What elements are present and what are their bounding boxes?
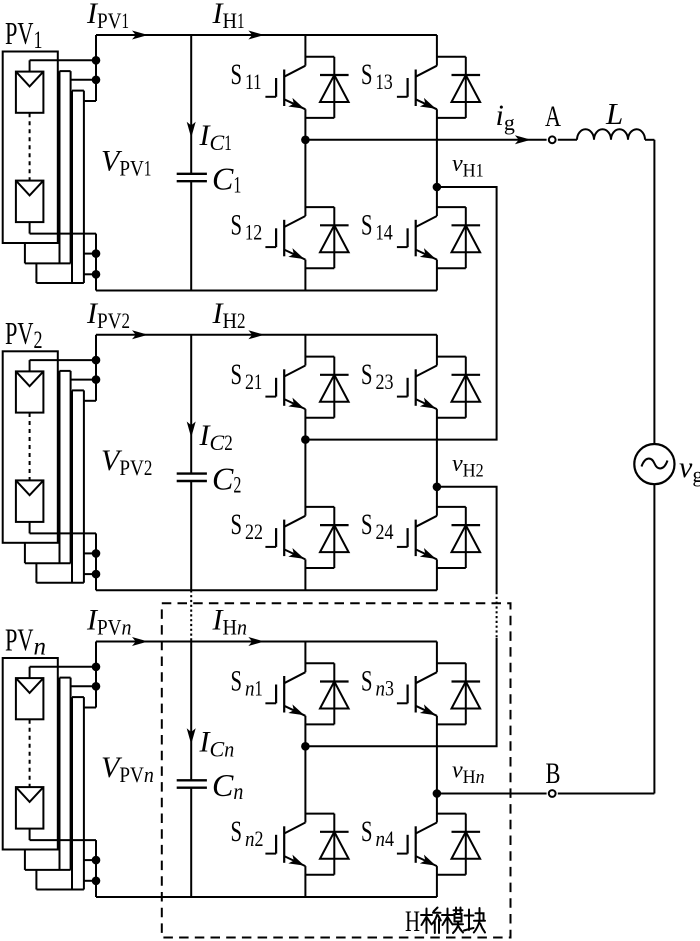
wire string3 left side bbox=[71, 697, 73, 889]
wire right leg mid segment module n bbox=[436, 716, 438, 823]
arrow I_PVn bbox=[132, 637, 148, 646]
diode D13 top branch wire bbox=[437, 56, 466, 58]
diode D23 top branch wire bbox=[437, 356, 466, 358]
wire string3 right side bbox=[83, 91, 85, 283]
wire top rail module 2 bbox=[96, 334, 437, 336]
diode D14 triangle bbox=[452, 225, 481, 252]
wire staircase step2 vertical bbox=[35, 870, 37, 890]
diode D24 cathode bar bbox=[452, 524, 481, 526]
diode D12 triangle bbox=[320, 225, 349, 252]
transistor S13 gate lead bbox=[397, 96, 408, 98]
PV array PV2 outer panel box bbox=[3, 351, 58, 543]
transistor Sn4 collector stroke bbox=[416, 823, 437, 834]
PV cell bottom chevron bbox=[16, 480, 44, 495]
diode D11 triangle bbox=[320, 75, 349, 102]
wire v_H2 down bbox=[437, 487, 497, 592]
diode D22 triangle bbox=[320, 525, 349, 552]
diode D14 vertical wire bbox=[465, 207, 467, 268]
diode Dn4 vertical wire bbox=[465, 814, 467, 875]
arrow I_PV2 bbox=[132, 330, 148, 339]
wire string2 left side bbox=[59, 371, 61, 563]
diode Dn2 top branch wire bbox=[305, 813, 334, 815]
arrow i_g bbox=[515, 135, 531, 144]
transistor Sn2 emitter arrow bbox=[288, 855, 304, 866]
wire capacitor Cn top lead bbox=[190, 642, 192, 781]
svg-text:L: L bbox=[605, 96, 623, 131]
wire staircase step1 horizontal bbox=[25, 262, 71, 264]
wire capacitor C1 top lead bbox=[190, 35, 192, 174]
diode D12 top branch wire bbox=[305, 206, 334, 208]
wire right leg mid segment module 1 bbox=[436, 109, 438, 216]
wire capacitor C1 bottom lead bbox=[190, 181, 192, 290]
wire PV minus lead to bus bbox=[30, 233, 96, 235]
transistor Sn3 emitter stroke bbox=[416, 706, 437, 716]
transistor S14 collector stroke bbox=[416, 216, 437, 227]
transistor Sn1 gate bar bbox=[275, 685, 277, 704]
transistor S24 gate lead bbox=[397, 546, 408, 548]
PV cell top chevron bbox=[16, 678, 44, 693]
terminal B bbox=[549, 790, 556, 797]
wire left leg emitter segment module n bbox=[304, 866, 306, 897]
wire staircase step1 vertical bbox=[24, 243, 26, 263]
diode D13 bottom branch wire bbox=[437, 117, 466, 119]
transistor S24 emitter stroke bbox=[416, 549, 437, 559]
diode Dn2 triangle bbox=[320, 832, 349, 859]
transistor S14 body bar bbox=[415, 220, 417, 256]
transistor Sn2 gate lead bbox=[265, 853, 276, 855]
wire staircase step1 horizontal bbox=[25, 869, 71, 871]
diode Dn4 top branch wire bbox=[437, 813, 466, 815]
diode Dn3 triangle bbox=[452, 682, 481, 709]
diode Dn1 bottom branch wire bbox=[305, 723, 334, 725]
transistor Sn4 emitter stroke bbox=[416, 856, 437, 866]
PV cell top rectangle bbox=[16, 72, 44, 113]
diode D24 vertical wire bbox=[465, 507, 467, 568]
diode D12 cathode bar bbox=[320, 224, 349, 226]
wire node A to inductor bbox=[558, 139, 577, 141]
wire string2 right side bbox=[70, 678, 72, 870]
transistor Sn1 body bar bbox=[283, 676, 285, 713]
PV cell bottom rectangle bbox=[16, 480, 44, 522]
wire left leg collector segment module n bbox=[304, 642, 306, 673]
transistor Sn3 gate lead bbox=[397, 702, 408, 704]
diode Dn3 top branch wire bbox=[437, 662, 466, 664]
diode D13 cathode bar bbox=[452, 74, 481, 76]
diode D11 vertical wire bbox=[333, 57, 335, 118]
wire right leg emitter segment module 1 bbox=[436, 260, 438, 291]
wire dc bus upper segment bbox=[95, 35, 97, 101]
wire staircase step1 horizontal bbox=[25, 562, 71, 564]
PV cell top rectangle bbox=[16, 371, 44, 412]
transistor Sn3 emitter arrow bbox=[420, 704, 436, 715]
wire staircase step2 vertical bbox=[35, 563, 37, 583]
wire cell string bottom riser bbox=[29, 829, 31, 841]
transistor S13 gate bar bbox=[407, 78, 409, 97]
diode Dn3 cathode bar bbox=[452, 680, 481, 682]
wire string2 right side bbox=[70, 371, 72, 563]
wire string2 top link bbox=[60, 370, 71, 372]
wire i_g output to node A bbox=[305, 139, 546, 141]
diode D22 bottom branch wire bbox=[305, 567, 334, 569]
capacitor Cn plates bbox=[177, 780, 207, 787]
wire PV plus lead to bus bbox=[30, 59, 96, 61]
wire left leg mid segment module 1 bbox=[304, 109, 306, 216]
PV cell bottom chevron bbox=[16, 181, 44, 196]
transistor S23 gate lead bbox=[397, 396, 408, 398]
wire dotted continuation v_H column bbox=[496, 592, 498, 638]
transistor S24 gate bar bbox=[407, 528, 409, 547]
wire right leg collector segment module n bbox=[436, 642, 438, 673]
wire dashed cell string link bbox=[29, 413, 31, 480]
wire stub to bottom bus dot 2 bbox=[84, 273, 96, 275]
junction bus top dot 1 bbox=[92, 56, 101, 65]
diode D11 top branch wire bbox=[305, 56, 334, 58]
transistor Sn3 gate bar bbox=[407, 685, 409, 704]
wire bus elbow to string3 bbox=[84, 400, 96, 402]
transistor S14 emitter arrow bbox=[420, 248, 436, 259]
capacitor C2 plates bbox=[177, 474, 207, 481]
junction bus top dot 2 bbox=[92, 375, 101, 384]
transistor S13 body bar bbox=[415, 70, 417, 107]
diode D21 triangle bbox=[320, 375, 349, 402]
diode D11 bottom branch wire bbox=[305, 117, 334, 119]
transistor S13 emitter stroke bbox=[416, 99, 437, 109]
wire bus elbow to string3 bbox=[84, 100, 96, 102]
wire dc bus lower segment bbox=[95, 840, 97, 897]
wire dc bus lower segment bbox=[95, 234, 97, 291]
junction bus bottom dot 1 bbox=[92, 249, 101, 258]
wire bottom rail module 2 bbox=[96, 589, 437, 591]
wire left leg emitter segment module 1 bbox=[304, 260, 306, 291]
wire string2 to bus dot bbox=[71, 685, 96, 687]
wire top rail module 1 bbox=[96, 34, 437, 36]
junction bus bottom dot 1 bbox=[92, 856, 101, 865]
transistor Sn2 gate bar bbox=[275, 835, 277, 854]
transistor Sn2 body bar bbox=[283, 826, 285, 863]
wire string2 top link bbox=[60, 70, 71, 72]
wire staircase step2 vertical bbox=[35, 263, 37, 283]
transistor S21 collector stroke bbox=[284, 366, 305, 377]
wire PV minus lead to bus bbox=[30, 532, 96, 534]
transistor S22 emitter stroke bbox=[284, 549, 305, 559]
PV array PVn outer panel box bbox=[3, 658, 58, 850]
junction bus bottom dot 1 bbox=[92, 549, 101, 558]
arrow I_H1 bbox=[248, 31, 264, 40]
junction bus bottom dot 2 bbox=[92, 570, 101, 579]
wire right leg mid segment module 2 bbox=[436, 409, 438, 516]
wire PV plus lead to bus bbox=[30, 666, 96, 668]
transistor S21 emitter arrow bbox=[288, 398, 304, 409]
diode Dn2 cathode bar bbox=[320, 831, 349, 833]
diode D12 vertical wire bbox=[333, 207, 335, 268]
wire bus elbow to string3 bbox=[84, 707, 96, 709]
wire PV minus lead to bus bbox=[30, 839, 96, 841]
diode Dn3 bottom branch wire bbox=[437, 723, 466, 725]
transistor S22 collector stroke bbox=[284, 516, 305, 527]
transistor S12 emitter stroke bbox=[284, 250, 305, 260]
transistor S12 collector stroke bbox=[284, 216, 305, 227]
wire capacitor C2 bottom lead bbox=[190, 481, 192, 590]
transistor Sn4 emitter arrow bbox=[420, 855, 436, 866]
transistor S23 gate bar bbox=[407, 378, 409, 397]
transistor S12 gate lead bbox=[265, 246, 276, 248]
wire cell string bottom riser bbox=[29, 222, 31, 234]
arrow I_C1 bbox=[187, 122, 196, 138]
arrow I_Cn bbox=[187, 728, 196, 744]
transistor S22 emitter arrow bbox=[288, 548, 304, 559]
wire to module n midpoint bbox=[305, 638, 496, 746]
wire left leg mid segment module 2 bbox=[304, 409, 306, 516]
wire staircase step2 horizontal bbox=[36, 582, 84, 584]
diode D24 triangle bbox=[452, 525, 481, 552]
diode Dn4 triangle bbox=[452, 832, 481, 859]
diode D24 top branch wire bbox=[437, 506, 466, 508]
wire inductor to right bus bbox=[645, 139, 654, 141]
diode Dn1 top branch wire bbox=[305, 662, 334, 664]
transistor S11 gate bar bbox=[275, 78, 277, 97]
wire dashed cell string link bbox=[29, 113, 31, 180]
junction bus top dot 2 bbox=[92, 76, 101, 85]
wire stub to bottom bus dot 1 bbox=[84, 552, 96, 554]
wire string3 right side bbox=[83, 697, 85, 889]
capacitor C1 plates bbox=[177, 174, 207, 181]
junction bus bottom dot 2 bbox=[92, 270, 101, 279]
wire stub to bottom bus dot 1 bbox=[84, 859, 96, 861]
label bridge-module chinese characters (drawn strokes) bbox=[421, 908, 485, 934]
wire cell string top riser bbox=[29, 667, 31, 678]
wire top rail module n bbox=[96, 641, 437, 643]
arrow I_PV1 bbox=[132, 31, 148, 40]
diode D24 bottom branch wire bbox=[437, 567, 466, 569]
transistor Sn1 collector stroke bbox=[284, 672, 305, 683]
svg-text:B: B bbox=[546, 757, 561, 790]
wire cell string top riser bbox=[29, 60, 31, 71]
transistor Sn2 collector stroke bbox=[284, 823, 305, 834]
wire bottom rail module n bbox=[96, 896, 437, 898]
transistor S21 emitter stroke bbox=[284, 399, 305, 409]
transistor S22 body bar bbox=[283, 520, 285, 557]
transistor S21 gate lead bbox=[265, 396, 276, 398]
wire left leg collector segment module 1 bbox=[304, 35, 306, 66]
diode D23 cathode bar bbox=[452, 374, 481, 376]
transistor S14 gate lead bbox=[397, 246, 408, 248]
diode D13 triangle bbox=[452, 75, 481, 102]
wire capacitor Cn bottom lead bbox=[190, 788, 192, 897]
wire string3 right side bbox=[83, 390, 85, 582]
diode D14 bottom branch wire bbox=[437, 267, 466, 269]
wire right bus upper bbox=[653, 140, 655, 444]
wire v_H1 to module 2 midpoint bbox=[305, 187, 496, 440]
wire stub to bottom bus dot 2 bbox=[84, 880, 96, 882]
arrow I_C2 bbox=[187, 422, 196, 438]
diode Dn1 triangle bbox=[320, 682, 349, 709]
node v_Hn bbox=[433, 789, 442, 798]
transistor S22 gate bar bbox=[275, 528, 277, 547]
node v_H2 bbox=[433, 483, 442, 492]
dashed box H-bridge module outline bbox=[162, 603, 511, 937]
junction bus bottom dot 2 bbox=[92, 877, 101, 886]
transistor S11 emitter stroke bbox=[284, 99, 305, 109]
wire capacitor C2 top lead bbox=[190, 335, 192, 474]
transistor Sn4 gate lead bbox=[397, 853, 408, 855]
diode Dn1 vertical wire bbox=[333, 663, 335, 724]
diode Dn1 cathode bar bbox=[320, 680, 349, 682]
inductor L bbox=[577, 129, 645, 140]
transistor S23 collector stroke bbox=[416, 366, 437, 377]
diode D21 top branch wire bbox=[305, 356, 334, 358]
transistor S24 emitter arrow bbox=[420, 548, 436, 559]
wire right leg collector segment module 2 bbox=[436, 335, 438, 366]
arrow I_H2 bbox=[248, 330, 264, 339]
PV cell bottom chevron bbox=[16, 787, 44, 802]
transistor S12 body bar bbox=[283, 220, 285, 256]
wire staircase step1 vertical bbox=[24, 850, 26, 870]
wire string3 top link bbox=[72, 389, 84, 391]
transistor S11 gate lead bbox=[265, 96, 276, 98]
terminal A bbox=[549, 136, 556, 143]
diode D13 vertical wire bbox=[465, 57, 467, 118]
transistor S11 collector stroke bbox=[284, 66, 305, 77]
wire string2 left side bbox=[59, 71, 61, 263]
PV cell top chevron bbox=[16, 72, 44, 87]
transistor S14 emitter stroke bbox=[416, 250, 437, 260]
transistor Sn4 gate bar bbox=[407, 835, 409, 854]
wire string2 to bus dot bbox=[71, 379, 96, 381]
arrow I_Hn bbox=[248, 637, 264, 646]
transistor S12 gate bar bbox=[275, 228, 277, 247]
node left midpoint module 2 bbox=[301, 435, 310, 444]
diode D23 bottom branch wire bbox=[437, 417, 466, 419]
diode D23 vertical wire bbox=[465, 357, 467, 418]
junction bus top dot 2 bbox=[92, 682, 101, 691]
wire left leg mid segment module n bbox=[304, 716, 306, 823]
PV array PV1 outer panel box bbox=[3, 52, 58, 244]
PV cell top rectangle bbox=[16, 678, 44, 719]
transistor S21 body bar bbox=[283, 369, 285, 406]
diode D22 vertical wire bbox=[333, 507, 335, 568]
wire left leg collector segment module 2 bbox=[304, 335, 306, 366]
transistor S24 collector stroke bbox=[416, 516, 437, 527]
wire right bus lower bbox=[653, 484, 655, 793]
wire right leg emitter segment module n bbox=[436, 866, 438, 897]
transistor S24 body bar bbox=[415, 520, 417, 557]
diode Dn2 bottom branch wire bbox=[305, 874, 334, 876]
wire right leg collector segment module 1 bbox=[436, 35, 438, 66]
wire dc bus upper segment bbox=[95, 642, 97, 708]
PV cell top chevron bbox=[16, 371, 44, 386]
node left midpoint module n bbox=[301, 742, 310, 751]
PV cell bottom rectangle bbox=[16, 787, 44, 829]
diode Dn4 bottom branch wire bbox=[437, 874, 466, 876]
wire dc bus lower segment bbox=[95, 533, 97, 590]
wire dotted continuation capacitor column bbox=[190, 590, 192, 641]
wire dashed cell string link bbox=[29, 720, 31, 787]
diode D14 top branch wire bbox=[437, 206, 466, 208]
wire staircase step2 horizontal bbox=[36, 282, 84, 284]
diode Dn4 cathode bar bbox=[452, 831, 481, 833]
wire string3 top link bbox=[72, 696, 84, 698]
transistor Sn3 collector stroke bbox=[416, 672, 437, 683]
wire staircase step1 vertical bbox=[24, 543, 26, 563]
AC source v_g bbox=[634, 444, 674, 484]
node left midpoint module 1 bbox=[301, 136, 310, 145]
svg-text:A: A bbox=[545, 100, 561, 133]
junction bus top dot 1 bbox=[92, 356, 101, 365]
transistor Sn1 emitter stroke bbox=[284, 706, 305, 716]
wire string2 top link bbox=[60, 677, 71, 679]
wire string3 left side bbox=[71, 390, 73, 582]
wire cell string bottom riser bbox=[29, 522, 31, 534]
wire v_Hn to terminal B bbox=[437, 793, 547, 795]
diode D21 vertical wire bbox=[333, 357, 335, 418]
wire string2 left side bbox=[59, 678, 61, 870]
transistor S22 gate lead bbox=[265, 546, 276, 548]
junction bus top dot 1 bbox=[92, 663, 101, 672]
wire PV plus lead to bus bbox=[30, 359, 96, 361]
diode Dn3 vertical wire bbox=[465, 663, 467, 724]
transistor S23 emitter arrow bbox=[420, 398, 436, 409]
diode D21 bottom branch wire bbox=[305, 417, 334, 419]
wire stub to bottom bus dot 1 bbox=[84, 253, 96, 255]
wire staircase step2 horizontal bbox=[36, 889, 84, 891]
wire string3 top link bbox=[72, 90, 84, 92]
transistor Sn1 gate lead bbox=[265, 702, 276, 704]
wire right leg emitter segment module 2 bbox=[436, 559, 438, 590]
transistor Sn3 body bar bbox=[415, 676, 417, 713]
diode D12 bottom branch wire bbox=[305, 267, 334, 269]
wire cell string top riser bbox=[29, 360, 31, 371]
node v_H1 bbox=[433, 183, 442, 192]
wire string3 left side bbox=[71, 91, 73, 283]
transistor S11 body bar bbox=[283, 70, 285, 107]
transistor S11 emitter arrow bbox=[288, 98, 304, 109]
svg-text:H: H bbox=[405, 905, 420, 938]
transistor Sn2 emitter stroke bbox=[284, 856, 305, 866]
diode D11 cathode bar bbox=[320, 74, 349, 76]
transistor S23 emitter stroke bbox=[416, 399, 437, 409]
diode D22 top branch wire bbox=[305, 506, 334, 508]
transistor S21 gate bar bbox=[275, 378, 277, 397]
wire string2 to bus dot bbox=[71, 79, 96, 81]
transistor Sn1 emitter arrow bbox=[288, 704, 304, 715]
PV cell bottom rectangle bbox=[16, 181, 44, 223]
transistor S14 gate bar bbox=[407, 228, 409, 247]
transistor S13 emitter arrow bbox=[420, 98, 436, 109]
diode Dn2 vertical wire bbox=[333, 814, 335, 875]
diode D21 cathode bar bbox=[320, 374, 349, 376]
wire string2 right side bbox=[70, 71, 72, 263]
wire bottom rail module 1 bbox=[96, 290, 437, 292]
transistor Sn4 body bar bbox=[415, 826, 417, 863]
diode D23 triangle bbox=[452, 375, 481, 402]
wire stub to bottom bus dot 2 bbox=[84, 573, 96, 575]
wire left leg emitter segment module 2 bbox=[304, 559, 306, 590]
transistor S23 body bar bbox=[415, 369, 417, 406]
diode D14 cathode bar bbox=[452, 224, 481, 226]
wire terminal B to right bus bbox=[558, 793, 655, 795]
transistor S12 emitter arrow bbox=[288, 248, 304, 259]
transistor S13 collector stroke bbox=[416, 66, 437, 77]
diode D22 cathode bar bbox=[320, 524, 349, 526]
wire dc bus upper segment bbox=[95, 335, 97, 401]
